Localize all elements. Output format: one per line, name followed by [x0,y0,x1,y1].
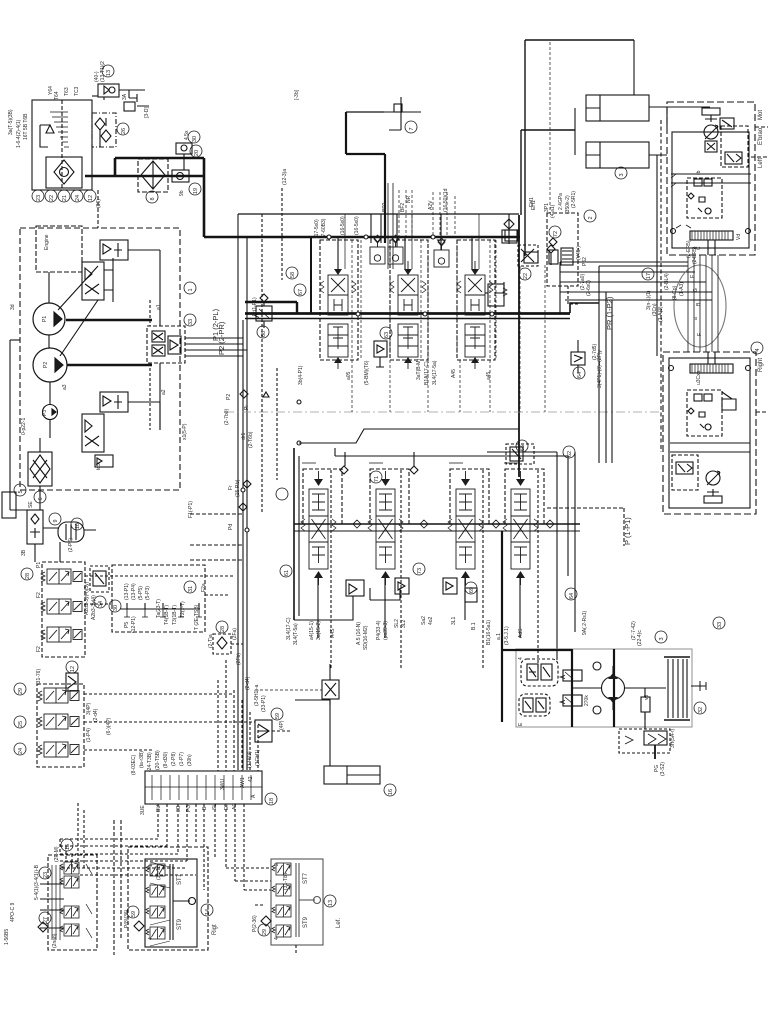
svg-text:P2 (2-PR): P2 (2-PR) [217,321,226,355]
svg-text:(12-P1): (12-P1) [131,616,137,633]
svg-text:(2na8): (2na8) [52,933,58,948]
svg-text:(8-d30): (8-d30) [163,752,169,768]
svg-text:(2-T)a: (2-T)a [208,634,214,648]
svg-text:P(2-36): P(2-36) [252,915,258,932]
svg-text:E'brao: E'brao [758,127,764,145]
svg-text:(2-BL4): (2-BL4) [664,273,670,290]
svg-text:A2b3-3y(4)(3y): A2b3-3y(4)(3y) [84,581,90,615]
svg-text:22: 22 [49,195,55,201]
svg-text:(2-P6): (2-P6) [68,538,74,552]
svg-text:73: 73 [417,568,423,574]
svg-text:Pd: Pd [228,524,234,530]
svg-text:(3-5.J.1): (3-5.J.1) [504,626,510,645]
svg-text:(12-3)a: (12-3)a [282,169,288,185]
svg-text:SE: SE [28,501,34,508]
svg-text:AC: AC [232,803,238,810]
svg-text:3A: 3A [122,93,128,100]
svg-text:29: 29 [262,929,268,935]
svg-text:61: 61 [284,570,290,576]
svg-text:1: 1 [188,288,194,291]
svg-text:(30h): (30h) [187,754,193,766]
svg-text:(4-a1): (4-a1) [550,204,556,218]
svg-text:P(8)(36): P(8)(36) [124,909,130,928]
svg-text:P2: P2 [226,394,232,400]
svg-text:F2: F2 [36,592,42,598]
svg-text:4PO-C 9: 4PO-C 9 [10,902,16,922]
svg-text:a3: a3 [62,384,68,390]
svg-text:A4S: A4S [330,628,336,638]
svg-text:3L2: 3L2 [401,619,407,628]
svg-text:a45: a45 [486,371,492,380]
svg-text:1-6-4(2)-4(1): 1-6-4(2)-4(1) [16,119,22,148]
svg-text:3L4(17-5a): 3L4(17-5a) [432,360,438,385]
svg-text:T64: T64 [54,91,60,100]
svg-text:PO: PO [186,805,192,812]
svg-text:EH1: EH1 [529,197,535,207]
svg-text:30: 30 [113,605,119,611]
svg-text:(2-d4): (2-d4) [93,708,99,722]
svg-text:a2: a2 [161,389,167,395]
svg-text:(2-7b0): (2-7b0) [224,409,230,425]
svg-text:3d: 3d [10,304,16,310]
svg-text:Pi: Pi [244,406,250,410]
svg-text:0-p22-1: 0-p22-1 [21,418,27,435]
svg-text:(3-S2): (3-S2) [660,762,666,776]
svg-text:A45: A45 [451,369,457,378]
svg-text:13: 13 [328,900,334,906]
svg-text:6: 6 [38,497,44,500]
svg-text:a1: a1 [156,304,162,310]
svg-text:(8-Cp): (8-Cp) [672,285,678,300]
svg-text:P4(33-4): P4(33-4) [376,620,382,640]
svg-text:(2-T6b): (2-T6b) [248,431,254,448]
svg-text:Mot: Mot [758,110,764,120]
svg-text:(20-T5B): (20-T5B) [155,750,161,770]
svg-text:Y64: Y64 [48,86,54,95]
svg-text:rb: rb [696,170,702,175]
svg-text:42: 42 [248,776,254,782]
svg-text:7: 7 [409,127,415,130]
svg-text:(24-T3B): (24-T3B) [147,752,153,772]
svg-text:24: 24 [18,748,24,754]
svg-text:4.5x: 4.5x [184,130,190,140]
svg-text:ST7: ST7 [177,873,183,885]
svg-text:(15-P.b): (15-P.b) [235,479,241,497]
svg-text:59: 59 [275,713,281,719]
svg-text:C: C [696,246,702,250]
svg-text:P2: P2 [43,362,49,368]
svg-text:PR (1-P2): PR (1-P2) [605,296,614,330]
svg-text:(16-5x0): (16-5x0) [354,216,360,235]
svg-text:10: 10 [75,523,81,529]
svg-text:ST7: ST7 [303,872,309,884]
svg-text:18: 18 [269,798,275,804]
svg-text:270k: 270k [584,695,590,706]
svg-text:16: 16 [388,789,394,795]
svg-text:12: 12 [70,666,76,672]
svg-text:BU: BU [156,805,162,812]
svg-text:(5-BM)(T6): (5-BM)(T6) [364,360,370,385]
svg-text:21: 21 [62,195,68,201]
svg-text:AdS: AdS [518,628,524,638]
svg-text:(2Fa): (2Fa) [232,628,238,640]
svg-text:64: 64 [569,593,575,599]
svg-text:3O: 3O [176,805,182,812]
svg-text:SD(16-M2): SD(16-M2) [363,625,369,650]
svg-text:(13-P1): (13-P1) [124,583,130,600]
svg-text:4: 4 [755,348,761,351]
svg-text:19: 19 [193,188,199,194]
svg-text:a: a [693,317,699,320]
svg-text:a4(15-1): a4(15-1) [309,621,315,640]
svg-text:(3GH1): (3GH1) [255,749,261,766]
svg-text:Fr(1-P1): Fr(1-P1) [252,297,258,316]
svg-text:(1-P4): (1-P4) [86,728,92,742]
svg-text:ST9: ST9 [177,918,183,930]
svg-text:3: 3 [619,173,625,176]
svg-text:23: 23 [43,872,49,878]
svg-text:71: 71 [374,476,380,482]
svg-text:Fr: Fr [228,485,234,490]
svg-text:22: 22 [523,273,529,279]
svg-text:62: 62 [567,451,573,457]
svg-text:B1A(17-C): B1A(17-C) [424,361,430,385]
svg-text:32: 32 [698,707,704,713]
svg-text:58: 58 [290,272,296,278]
svg-text:T63: T63 [64,87,70,96]
svg-text:Rigt: Rigt [212,924,218,935]
svg-text:x1(5-P): x1(5-P) [182,423,188,440]
svg-text:A2b3-3y(4): A2b3-3y(4) [91,595,97,620]
svg-text:(2-P8): (2-P8) [171,752,177,766]
svg-text:2.4GPa: 2.4GPa [558,193,564,210]
svg-text:5-4(1)(3-4(1))-B: 5-4(1)(3-4(1))-B [34,864,40,900]
svg-text:[-3b]: [-3b] [294,89,300,100]
svg-text:Left: Left [758,158,764,168]
svg-text:2: 2 [274,863,280,866]
svg-text:33: 33 [188,319,194,325]
svg-text:B1(16-5a1): B1(16-5a1) [486,620,492,645]
svg-text:a.1: a.1 [496,633,502,640]
svg-text:14: 14 [205,909,211,915]
svg-text:Lef.: Lef. [336,918,342,928]
svg-text:67: 67 [298,289,304,295]
svg-text:(36): (36) [96,199,102,208]
svg-text:A2V: A2V [428,200,434,210]
svg-text:dr1: dr1 [241,433,247,440]
svg-text:TC3: TC3 [74,86,80,96]
svg-text:15: 15 [65,844,71,850]
svg-text:(13-T1)(2: (13-T1)(2 [100,61,106,82]
svg-text:16T 5B T6B: 16T 5B T6B [23,113,29,140]
svg-text:33: 33 [717,622,723,628]
svg-text:3H(5A-r): 3H(5A-r) [670,728,676,748]
svg-text:13: 13 [106,70,112,76]
svg-text:28: 28 [220,626,226,632]
svg-text:(pa39-3): (pa39-3) [383,621,389,640]
svg-text:(4P): (4P) [279,720,285,730]
svg-text:F2: F2 [36,646,42,652]
svg-text:(2R-M): (2R-M) [54,846,60,862]
svg-text:ER: ER [224,803,230,810]
svg-text:3B: 3B [21,549,27,556]
svg-text:3L1: 3L1 [451,616,457,625]
svg-text:(2Fb): (2Fb) [236,653,242,665]
svg-text:(31-T8r: (31-T8r [156,863,162,880]
svg-text:F: F [697,333,703,336]
svg-text:NR: NR [406,195,412,203]
svg-text:P1: P1 [42,316,48,322]
svg-text:2: 2 [588,216,594,219]
svg-text:SL: SL [212,804,218,810]
svg-text:3a(T-5)(3B): 3a(T-5)(3B) [8,109,14,135]
svg-text:Ta(23-T): Ta(23-T) [156,599,162,618]
svg-text:4: 4 [518,657,524,660]
svg-text:29: 29 [18,688,24,694]
svg-text:a05: a05 [346,371,352,380]
svg-text:1-56B5: 1-56B5 [4,929,10,945]
svg-text:27: 27 [43,917,49,923]
svg-text:(2-d4): (2-d4) [245,676,251,690]
svg-text:(22-4)c: (22-4)c [637,630,643,646]
svg-text:3b(4-P1): 3b(4-P1) [298,365,304,385]
svg-text:3UE: 3UE [140,805,146,815]
svg-text:(31-T8T: (31-T8T [283,872,289,890]
svg-text:20: 20 [194,150,200,156]
svg-text:v3: v3 [644,695,650,701]
svg-text:[3-D]: [3-D] [144,107,150,118]
svg-text:(2-A(3): (2-A(3) [658,306,664,322]
svg-text:3L4(17-C): 3L4(17-C) [286,617,292,640]
svg-text:4: 4 [148,937,154,940]
svg-text:64: 64 [577,372,583,378]
svg-text:68: 68 [261,331,267,337]
svg-text:BF2: BF2 [400,203,406,212]
svg-text:24: 24 [75,195,81,201]
svg-text:25: 25 [18,721,24,727]
svg-text:P5: P5 [124,622,130,628]
svg-text:9b: 9b [179,190,185,196]
svg-text:(3-P03): (3-P03) [247,751,253,768]
svg-text:28: 28 [25,573,31,579]
svg-text:59: 59 [131,911,137,917]
svg-text:1: 1 [148,864,154,867]
svg-text:23: 23 [36,195,42,201]
svg-text:(16-5x0): (16-5x0) [340,216,346,235]
svg-text:(16-50)(1d: (16-50)(1d [443,188,449,212]
svg-text:34: 34 [98,601,104,607]
svg-text:30: 30 [192,136,198,142]
svg-text:31: 31 [188,586,194,592]
svg-text:BP2: BP2 [382,202,388,212]
svg-text:9: 9 [53,519,59,522]
svg-text:ST9: ST9 [303,916,309,928]
svg-text:G: G [693,288,699,292]
svg-text:T3(1B-T): T3(1B-T) [172,605,178,625]
svg-text:(3-5H1)-a: (3-5H1)-a [254,684,260,706]
svg-text:B.1: B.1 [471,622,477,630]
svg-text:(1-P7): (1-P7) [179,752,185,766]
svg-text:69: 69 [469,587,475,593]
svg-text:3: 3 [659,637,665,640]
svg-text:Right: Right [758,358,764,372]
svg-text:F1(-P1): F1(-P1) [188,501,194,518]
svg-text:63: 63 [384,332,390,338]
svg-text:3(4P): 3(4P) [86,702,92,715]
svg-text:Engine: Engine [44,234,50,250]
svg-text:(2-6x0): (2-6x0) [586,280,592,296]
svg-text:3a(15-2): 3a(15-2) [316,621,322,640]
svg-text:P (1-P1): P (1-P1) [623,517,632,545]
svg-text:(7-60B3): (7-60B3) [321,218,327,238]
svg-text:SL2: SL2 [394,619,400,628]
svg-text:P62: P62 [582,257,588,266]
svg-text:F2a: F2a [201,583,207,592]
svg-text:26: 26 [121,128,127,134]
svg-text:(6-)(4P): (6-)(4P) [106,717,112,735]
svg-text:(5-P3): (5-P3) [145,586,151,600]
svg-text:72: 72 [553,231,559,237]
svg-text:3L4(T-5a): 3L4(T-5a) [293,623,299,645]
svg-text:4: 4 [274,937,280,940]
svg-text:(8-03EC): (8-03EC) [131,754,137,775]
svg-text:(1-A3): (1-A3) [679,282,685,296]
svg-text:4o2: 4o2 [428,616,434,625]
svg-text:T (2E-TSB): T (2E-TSB) [194,604,200,630]
svg-text:9A(.2-Rs1): 9A(.2-Rs1) [582,610,588,635]
svg-text:65: 65 [520,445,526,451]
svg-text:(2-7d5): (2-7d5) [592,344,598,360]
svg-text:(33-P1): (33-P1) [261,695,267,712]
svg-text:T4(1B-T): T4(1B-T) [164,605,170,625]
svg-text:Sa2: Sa2 [421,616,427,625]
svg-text:AW1: AW1 [240,777,246,788]
svg-text:(5-P5): (5-P5) [138,586,144,600]
svg-text:T2(1-T): T2(1-T) [180,601,186,618]
svg-text:(2-5R1): (2-5R1) [571,191,577,208]
svg-text:(ta-r3B): (ta-r3B) [139,751,145,768]
svg-text:8: 8 [150,197,156,200]
svg-text:(31-76): (31-76) [36,669,42,685]
svg-text:u3Cxa: u3Cxa [696,370,702,385]
svg-text:5: 5 [18,490,24,493]
svg-text:17: 17 [646,273,652,279]
svg-text:P3: P3 [42,410,48,416]
svg-text:P1: P1 [36,562,42,568]
svg-text:(13-P4): (13-P4) [131,583,137,600]
svg-text:Vd: Vd [736,234,742,240]
svg-text:A.5 (16-N): A.5 (16-N) [356,622,362,645]
svg-text:3aT(B-M): 3aT(B-M) [416,359,422,380]
svg-text:3WU: 3WU [220,779,226,791]
svg-text:(17-5x0): (17-5x0) [314,219,320,238]
svg-text:tc5: tc5 [96,463,102,470]
svg-text:12: 12 [88,195,94,201]
